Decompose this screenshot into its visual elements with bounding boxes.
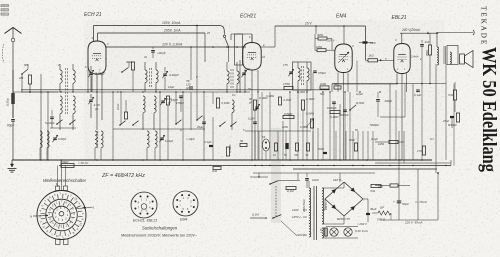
wire bbox=[12, 104, 14, 118]
wire bbox=[21, 74, 23, 92]
svg-text:0,5MΩ: 0,5MΩ bbox=[300, 125, 308, 129]
resistor 175Ω bbox=[283, 82, 293, 90]
resistor 50µpF vertical bbox=[166, 96, 178, 105]
svg-text:≈ 50 nF: ≈ 50 nF bbox=[78, 161, 88, 165]
svg-text:6(50µF: 6(50µF bbox=[448, 123, 457, 127]
svg-text:0,1µF: 0,1µF bbox=[371, 137, 378, 141]
svg-text:170: 170 bbox=[417, 149, 422, 153]
resistor 1MΩ input bbox=[18, 75, 32, 92]
capacitor 60pF (antenna series) bbox=[7, 120, 15, 161]
svg-text:1MΩ: 1MΩ bbox=[316, 45, 323, 49]
svg-text:16 V: 16 V bbox=[305, 22, 312, 26]
loudspeaker bbox=[460, 51, 474, 68]
LW antenna coil 2 (lower) bbox=[47, 131, 49, 160]
dial drum coil bbox=[95, 131, 103, 160]
dial lamps circuit bbox=[322, 227, 358, 239]
switch contact 2M (band) bbox=[21, 63, 28, 75]
padder capacitor 70/125pF bbox=[185, 79, 192, 130]
svg-text:pF: pF bbox=[248, 101, 252, 105]
svg-text:175: 175 bbox=[283, 63, 288, 67]
svg-text:4nF: 4nF bbox=[425, 40, 430, 44]
oscillator coil bbox=[143, 96, 145, 130]
svg-text:1MΩ: 1MΩ bbox=[320, 82, 327, 86]
output stage wires right bbox=[332, 64, 446, 173]
capacitor 0,1µF lower bbox=[204, 140, 213, 147]
phono jacks TA bbox=[262, 139, 269, 151]
svg-text:1000pF: 1000pF bbox=[327, 106, 337, 110]
IF1 core bbox=[150, 68, 152, 88]
svg-text:50µF: 50µF bbox=[402, 202, 409, 206]
wires tube1 pins bbox=[88, 42, 106, 131]
capacitor 400µF bbox=[376, 92, 392, 117]
wave band switch disc bbox=[37, 191, 86, 240]
svg-text:2M: 2M bbox=[18, 76, 24, 80]
svg-text:EM4: EM4 bbox=[180, 218, 187, 222]
antenna bbox=[2, 28, 21, 119]
bus line 3 bbox=[293, 168, 437, 170]
antenna coil L2 secondary (LW) bbox=[73, 96, 75, 130]
wire drops power bbox=[259, 173, 340, 182]
svg-text:≈ 263 V: ≈ 263 V bbox=[357, 222, 368, 226]
TeKaDe logo (top-left) bbox=[1, 5, 9, 16]
svg-text:5000pF: 5000pF bbox=[370, 123, 379, 127]
capacitor 1000pF bbox=[327, 102, 337, 110]
IF transformer 3 can shield bbox=[293, 62, 312, 90]
svg-text:0,1M: 0,1M bbox=[252, 213, 259, 217]
capacitor 0,1µF output bbox=[414, 90, 421, 97]
antenna coil L1 primary bbox=[60, 64, 62, 92]
mains switch (upper) bbox=[250, 176, 300, 185]
svg-text:0,1MΩ: 0,1MΩ bbox=[266, 94, 274, 98]
svg-text:Sockelschaltungen: Sockelschaltungen bbox=[142, 226, 178, 231]
svg-text:120 V, 2,3mA: 120 V, 2,3mA bbox=[162, 43, 183, 47]
wire bus mid bbox=[21, 91, 250, 93]
svg-text:TA: TA bbox=[262, 135, 265, 139]
mains switch (lower) bbox=[265, 215, 281, 219]
svg-text:450Ω: 450Ω bbox=[426, 50, 429, 56]
capacitor 50µF cathode bbox=[448, 113, 460, 128]
trimmer LW osc bbox=[159, 135, 173, 143]
trimmer 3-30pF osc bbox=[160, 97, 172, 105]
extra vertical wires (detail density) bbox=[213, 61, 373, 161]
node input junction bbox=[29, 91, 31, 93]
band switch contacts (antenna) bbox=[50, 120, 76, 128]
power transformer secondary winding bbox=[322, 188, 324, 224]
resistor 1MΩ right-mid bbox=[375, 140, 404, 146]
svg-text:3000pF: 3000pF bbox=[339, 113, 349, 117]
svg-text:≈≈ 15mF: ≈≈ 15mF bbox=[415, 200, 427, 204]
svg-text:10nF: 10nF bbox=[312, 178, 319, 182]
svg-text:ΩP: ΩP bbox=[380, 206, 384, 210]
svg-text:0,1MΩ: 0,1MΩ bbox=[222, 101, 230, 105]
resistor 1kΩ lower bbox=[212, 166, 221, 173]
svg-text:220 V· 85mA: 220 V· 85mA bbox=[404, 221, 423, 225]
component row above bus bbox=[273, 143, 310, 157]
capacitor 10nF EM4 bbox=[363, 41, 377, 45]
svg-text:240 V~: 240 V~ bbox=[332, 178, 343, 182]
antenna coil L2 primary (LW) bbox=[60, 96, 62, 130]
socket diagram ECH21 EBL21 bbox=[131, 192, 157, 223]
speaker feed line bbox=[437, 30, 474, 35]
tube ECH21 second (IF amp) bbox=[240, 14, 265, 73]
resistor 25Ω bbox=[375, 184, 410, 189]
svg-text:125V (~: 125V (~ bbox=[292, 215, 303, 219]
capacitor 5x10pF bbox=[45, 110, 55, 128]
IF3 core bbox=[302, 66, 304, 86]
svg-text:240 V(26mA: 240 V(26mA bbox=[401, 28, 420, 32]
IF transformer 2 secondary bbox=[237, 62, 239, 92]
capacitor 50µF filter bbox=[393, 200, 409, 206]
svg-text:25: 25 bbox=[206, 31, 210, 35]
svg-text:B250 C75: B250 C75 bbox=[337, 217, 350, 221]
tube ECH21 first (mixer) bbox=[84, 12, 109, 74]
svg-text:0,1MΩ: 0,1MΩ bbox=[297, 90, 305, 94]
magic eye EM4 tube bbox=[335, 14, 354, 73]
switch 40M (osc) bbox=[121, 60, 134, 73]
svg-text:5+10pF: 5+10pF bbox=[45, 121, 55, 125]
svg-text:7kΩ: 7kΩ bbox=[370, 189, 375, 193]
svg-text:1,7k: 1,7k bbox=[320, 228, 323, 233]
speaker field coil bbox=[437, 33, 439, 66]
resistor 1MΩ (EM4) bbox=[315, 45, 326, 52]
power transformer core bbox=[314, 186, 317, 240]
svg-text:6(,8kΩ: 6(,8kΩ bbox=[356, 101, 364, 105]
resistor 0,1MΩ AVC bbox=[253, 96, 268, 110]
chassis bus bbox=[12, 159, 432, 161]
svg-text:0,1µF: 0,1µF bbox=[414, 93, 421, 97]
svg-text:1kΩ: 1kΩ bbox=[212, 169, 218, 173]
svg-text:0,1µF: 0,1µF bbox=[204, 140, 211, 144]
svg-text:≈ 10µF: ≈ 10µF bbox=[186, 137, 195, 141]
svg-text:1kΩ: 1kΩ bbox=[369, 54, 375, 58]
ground (chassis) bbox=[8, 160, 17, 172]
svg-text:0,1M: 0,1M bbox=[287, 189, 294, 193]
wire antenna branch bbox=[12, 70, 14, 93]
resistor 0,1MΩ (tube2 grid) bbox=[216, 98, 229, 108]
resistor 50V bbox=[334, 82, 341, 89]
wire input to coils bbox=[13, 91, 58, 93]
svg-text:WK 50 Edelklang: WK 50 Edelklang bbox=[478, 47, 500, 173]
junction dots on bus bbox=[40, 159, 423, 161]
resistor 50 lower bbox=[240, 139, 247, 147]
svg-text:20µF: 20µF bbox=[196, 125, 204, 129]
svg-text:1MΩ: 1MΩ bbox=[282, 125, 288, 129]
wires tube2 pins bbox=[231, 26, 275, 160]
volume potentiometer 0,5MΩ bbox=[306, 112, 314, 129]
svg-text:3-30pF: 3-30pF bbox=[169, 73, 179, 77]
antenna coil L1 secondary bbox=[73, 64, 75, 92]
IF transformer 1 secondary coil bbox=[156, 62, 158, 92]
dial lamp 1 bbox=[330, 228, 338, 236]
wire AF line bbox=[245, 130, 311, 132]
resistor 450Ω bbox=[426, 33, 432, 83]
capacitor 0,25µF antenna bbox=[6, 93, 15, 106]
svg-text:5000: 5000 bbox=[318, 147, 324, 151]
field coil resistor 575Ω bbox=[372, 206, 391, 222]
IF transformer 2 primary bbox=[227, 62, 229, 92]
svg-text:1MΩ: 1MΩ bbox=[378, 142, 385, 146]
resistor 0,1MΩ AF bbox=[330, 110, 340, 119]
rectifier bridge B250 C75 bbox=[325, 182, 363, 221]
svg-text:0,1MΩ: 0,1MΩ bbox=[330, 115, 339, 119]
supply line 16V (osc/EM4) bbox=[275, 22, 366, 61]
power bus top bbox=[253, 172, 375, 174]
IF2 lower coil bbox=[232, 100, 234, 130]
svg-text:6,3V 0,1A: 6,3V 0,1A bbox=[355, 229, 368, 233]
trimmer +-2pF bbox=[151, 47, 166, 58]
svg-text:ZF = 468/472 kHz: ZF = 468/472 kHz bbox=[101, 173, 145, 179]
svg-text:EBL21: EBL21 bbox=[392, 15, 407, 21]
resistor 170Ω right bbox=[417, 146, 426, 155]
svg-text:400µF: 400µF bbox=[385, 99, 393, 103]
svg-text:50: 50 bbox=[247, 67, 251, 71]
tone switch bbox=[349, 105, 356, 111]
svg-text:50: 50 bbox=[240, 139, 244, 143]
trimmer 30pF LW bbox=[52, 135, 66, 142]
svg-text:N: N bbox=[30, 215, 32, 219]
resistor 7kΩ bbox=[448, 82, 457, 112]
IF transformer 3 primary bbox=[298, 62, 300, 92]
svg-text:50n: 50n bbox=[320, 92, 325, 96]
svg-text:6-10µF: 6-10µF bbox=[165, 139, 174, 143]
svg-text:EM4: EM4 bbox=[336, 14, 347, 20]
capacitor 10nF osc bbox=[116, 103, 128, 119]
svg-text:25µF: 25µF bbox=[442, 119, 450, 123]
power transformer primary winding bbox=[309, 181, 311, 237]
wires mid verticals to bus bbox=[255, 73, 363, 160]
svg-text:+: + bbox=[393, 200, 395, 204]
svg-text:30µF: 30µF bbox=[370, 207, 377, 211]
svg-text:0,2µF: 0,2µF bbox=[356, 92, 363, 96]
svg-text:0,2µF: 0,2µF bbox=[248, 117, 255, 121]
resistor 0,1MΩ lower bbox=[226, 144, 232, 156]
svg-text:4MΩ: 4MΩ bbox=[317, 33, 324, 37]
wire frame lower right bbox=[375, 131, 451, 166]
svg-text:pF: pF bbox=[185, 86, 190, 90]
wire osc section verticals bbox=[113, 26, 204, 161]
ganged switch link bbox=[275, 186, 277, 216]
dial lamp 2 bbox=[344, 228, 352, 236]
AVC line bbox=[21, 89, 330, 91]
svg-text:0,1: 0,1 bbox=[232, 93, 236, 97]
oscillator coil 2 bbox=[154, 96, 156, 130]
capacitor 30µF reservoir bbox=[366, 207, 377, 222]
svg-text:110V: 110V bbox=[292, 208, 300, 212]
svg-text:+02pF: +02pF bbox=[157, 51, 166, 55]
resistor 0,6MΩ on bus bbox=[60, 160, 74, 168]
svg-text:575 Ω: 575 Ω bbox=[377, 218, 386, 222]
extra labels (detail texture) bbox=[58, 31, 450, 141]
voltage selector taps bbox=[281, 208, 307, 237]
svg-text:ECH21, EBL21: ECH21, EBL21 bbox=[133, 219, 157, 223]
svg-text:Meßinstrument 333Ω/V, Meßwerte: Meßinstrument 333Ω/V, Meßwerte bei 220V~ bbox=[121, 234, 198, 238]
svg-text:TEKADE: TEKADE bbox=[480, 6, 488, 46]
capacitor 50nF bus bbox=[349, 138, 358, 151]
svg-text:6,8MΩ: 6,8MΩ bbox=[284, 112, 293, 116]
LW oscillator coil (lower) bbox=[147, 131, 149, 160]
IF can shield (tube2 left) bbox=[235, 34, 243, 65]
HT filter wires bottom right bbox=[380, 131, 438, 220]
svg-text:207 V: 207 V bbox=[327, 39, 335, 43]
supply rail 120V 2,3mA bbox=[106, 43, 247, 47]
resistor 0,1M mains bbox=[286, 186, 296, 193]
svg-text:265V, 1mA: 265V, 1mA bbox=[163, 29, 181, 33]
capacitor 3000pF bbox=[339, 110, 349, 117]
wave band switch radial contacts bbox=[38, 191, 86, 238]
svg-text:50nF: 50nF bbox=[349, 138, 355, 142]
capacitor 170pF bbox=[176, 96, 184, 112]
trimmer 3-30pF antenna bbox=[88, 66, 106, 92]
svg-text:60pF: 60pF bbox=[7, 124, 15, 128]
tube EBL21 (output) bbox=[392, 15, 419, 74]
svg-text:370pF: 370pF bbox=[318, 71, 326, 75]
svg-text:0,1MΩ: 0,1MΩ bbox=[306, 97, 315, 101]
resistor 0,1MΩ det extra bbox=[279, 97, 292, 105]
svg-text:3-30pF: 3-30pF bbox=[58, 137, 67, 141]
wave band switch wiper arrows bbox=[37, 160, 86, 216]
anode rail EBL21 to output transformer bbox=[400, 32, 438, 43]
resistor 6,8MΩ bbox=[283, 112, 294, 119]
svg-text:240 V~: 240 V~ bbox=[324, 201, 328, 211]
svg-text:220V 50Hz: 220V 50Hz bbox=[302, 198, 306, 213]
supply rail 100V 10mA bbox=[94, 21, 225, 42]
svg-text:pF: pF bbox=[94, 107, 99, 111]
output transformer bbox=[444, 46, 458, 65]
LW antenna coil (lower) bbox=[40, 131, 42, 160]
svg-text:175Ω: 175Ω bbox=[283, 82, 291, 86]
resistor 7kΩ filter bbox=[370, 184, 381, 193]
capacitor 4nF tone bbox=[420, 40, 429, 160]
wires rectifier bbox=[322, 182, 368, 224]
svg-text:0,1MΩ: 0,1MΩ bbox=[284, 98, 292, 102]
resistor 1kΩ EBL grid bbox=[366, 54, 394, 62]
svg-text:2,4mA: 2,4mA bbox=[410, 55, 419, 59]
svg-text:Wellenbereichschalter: Wellenbereichschalter bbox=[43, 178, 87, 183]
svg-text:ECH21: ECH21 bbox=[240, 14, 256, 20]
wire vertical to bus bbox=[40, 74, 42, 160]
wire bbox=[47, 92, 49, 160]
coil core bbox=[66, 68, 68, 114]
svg-text:100V, 10mA: 100V, 10mA bbox=[162, 21, 181, 25]
bus line 2 bbox=[59, 165, 451, 167]
IF2 core bbox=[231, 69, 233, 89]
svg-text:10nF: 10nF bbox=[370, 41, 377, 45]
trimmer 3-30pF IF1 bbox=[162, 67, 178, 90]
capacitor 10nF mains bbox=[305, 173, 319, 188]
svg-text:700: 700 bbox=[294, 154, 299, 157]
wires far right verticals bbox=[396, 84, 454, 166]
transformer labels bbox=[302, 198, 328, 213]
svg-text:0,1MΩ: 0,1MΩ bbox=[228, 144, 232, 153]
capacitor 0,2µF AF bbox=[248, 117, 257, 124]
wire filament feed bbox=[380, 116, 405, 118]
IF transformer 1 primary coil bbox=[145, 62, 147, 92]
trimmer 3-30pF antenna LW bbox=[88, 94, 99, 118]
junction dots rails bbox=[40, 25, 446, 167]
power transformer heater winding bbox=[322, 228, 324, 238]
svg-text:0,25µ: 0,25µ bbox=[6, 98, 10, 106]
socket diagram EM4 bbox=[173, 191, 198, 222]
mains lead bbox=[250, 213, 265, 219]
trimmer 30pF AVC bbox=[248, 97, 260, 111]
resistor 0,1MΩ det2 bbox=[301, 97, 315, 110]
capacitor 20µF AF bbox=[196, 116, 206, 131]
resistor 4MΩ (EM4) bbox=[315, 33, 327, 51]
IF transformer 3 secondary bbox=[307, 62, 309, 92]
wires EBL21 pins bbox=[332, 74, 407, 161]
capacitor 370pF bbox=[313, 71, 326, 75]
band switch contacts (osc) bbox=[113, 116, 237, 132]
switch contact (oscillator feed) bbox=[223, 35, 229, 62]
wires EM4 bbox=[326, 39, 373, 161]
svg-text:10µF: 10µF bbox=[168, 85, 175, 89]
resistor 1MΩ detector bbox=[320, 82, 329, 89]
svg-text:ECH 21: ECH 21 bbox=[84, 12, 102, 18]
svg-text:3x: 3x bbox=[144, 55, 148, 59]
supply rail 265V 1mA bbox=[98, 29, 253, 62]
IF2 trimmers bbox=[241, 67, 250, 77]
LW oscillator coil 2 (lower) bbox=[155, 131, 157, 160]
svg-text:7kΩ: 7kΩ bbox=[448, 93, 454, 97]
wave band switch terminals bbox=[30, 166, 95, 245]
capacitor 5000pF bus bbox=[318, 147, 327, 154]
svg-text:pF: pF bbox=[167, 101, 172, 105]
junction dot bbox=[437, 172, 439, 174]
IF3 trimmer bbox=[283, 63, 294, 76]
svg-text:0,1: 0,1 bbox=[430, 137, 434, 141]
svg-text:10nF: 10nF bbox=[116, 103, 120, 110]
